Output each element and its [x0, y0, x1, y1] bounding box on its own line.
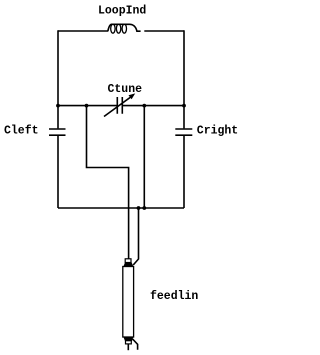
node junction right of Ctune	[142, 104, 146, 108]
wire top-right segment	[144, 30, 184, 32]
node junction bottom connector	[142, 206, 146, 210]
wire mid vertical connector	[143, 106, 145, 208]
svg-text:Cleft: Cleft	[4, 125, 39, 138]
feedline top cap	[123, 262, 133, 266]
svg-text:Ctune: Ctune	[108, 83, 143, 96]
wire feedline bottom shield	[133, 339, 138, 350]
node junction bottom shield	[137, 206, 141, 210]
capacitor Cright	[175, 129, 192, 135]
svg-text:feedlin: feedlin	[150, 290, 198, 303]
node junction middle-left	[56, 104, 60, 108]
node junction inner step top	[85, 104, 89, 108]
wire shield drop to feedline	[133, 208, 138, 265]
wire middle horizontal right of Ctune	[122, 105, 184, 107]
wire right vertical lower	[183, 136, 185, 208]
variable capacitor Ctune arrow	[104, 97, 131, 117]
svg-text:LoopInd: LoopInd	[98, 5, 146, 18]
svg-text:Cright: Cright	[197, 125, 238, 138]
inductor LoopInd	[108, 24, 141, 31]
feedline top stub	[125, 259, 131, 263]
wire left vertical upper	[57, 30, 59, 128]
wire top-left segment	[58, 30, 108, 32]
wire feedline bottom center	[127, 344, 129, 350]
wire middle horizontal left of Ctune	[58, 105, 117, 107]
capacitor Cleft	[49, 129, 66, 135]
wire inner step (from Ctune wire down and right)	[87, 106, 129, 259]
wire left vertical lower	[57, 136, 59, 208]
variable capacitor Ctune plates	[117, 97, 122, 114]
feedline bottom stub	[126, 341, 132, 344]
wire right vertical upper	[183, 30, 185, 128]
wire bottom horizontal	[58, 207, 184, 209]
feedline body	[123, 267, 134, 338]
node junction middle-right	[182, 104, 186, 108]
feedline bottom cap	[123, 337, 133, 341]
